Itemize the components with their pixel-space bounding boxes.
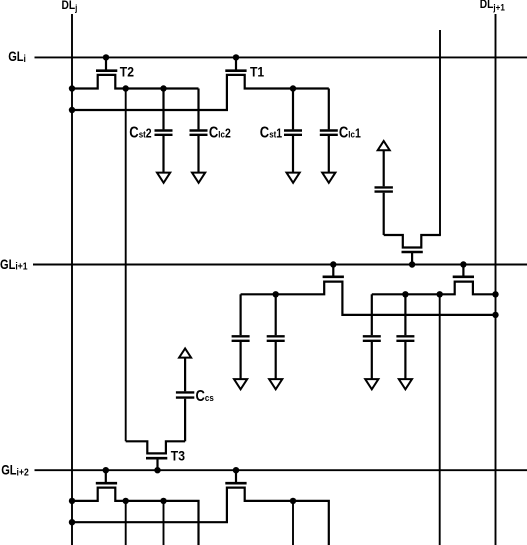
ground arrow under Clc2 [192, 173, 205, 183]
capacitor below-left 1 (unlabeled) [232, 294, 250, 379]
svg-text:T3: T3 [171, 448, 185, 464]
node dot row1c storage branch [123, 498, 129, 504]
node dot B left arm storage line [437, 291, 443, 297]
node dot DLj row2c [69, 519, 75, 525]
ground arrow under Cst2 [157, 173, 170, 183]
svg-text:T2: T2 [120, 64, 134, 80]
node dot B right arm on DLj+1 [492, 291, 498, 297]
capacitor below-left 2 (unlabeled) [267, 294, 285, 379]
ground arrow below-left 1 [234, 379, 247, 389]
gate line GLi [35, 56, 527, 58]
svg-text:DLj+1: DLj+1 [480, 0, 505, 13]
svg-text:DLj: DLj [62, 0, 78, 13]
transistor T3 gate bar [146, 457, 167, 460]
transistor A gate bar [323, 275, 344, 278]
storage line lower segment (vertical at x=439.7) [439, 294, 441, 545]
svg-text:GLi: GLi [8, 49, 26, 65]
capacitor Cst2 [155, 89, 173, 173]
gate line GLi+1 [33, 264, 527, 266]
transistor T4 gate stub [411, 252, 413, 265]
transistor T2c gate stub (below GLi+2 left) [105, 470, 107, 483]
transistor T4 channel (inverted, above GLi+1) [384, 235, 441, 248]
capacitor Clc2 [190, 89, 208, 173]
capacitor Clc1 [320, 89, 338, 173]
node dot B gate on GLi+1 [460, 261, 466, 267]
ground arrow below-left 2 [269, 379, 282, 389]
transistor A gate stub (below GLi+1 left) [332, 265, 334, 277]
transistor T1c gate bar [225, 482, 246, 485]
transistor T4 gate bar [402, 251, 423, 254]
transistor T1 gate bar [225, 69, 246, 72]
transistor T1c gate stub (below GLi+2 right) [235, 470, 237, 483]
ground arrow below-right 1 [365, 379, 378, 389]
ground arrow under Clc1 [322, 173, 335, 183]
node dot T3 gate on GLi+2 [154, 467, 160, 473]
node dot DLj row2 [69, 107, 75, 113]
ground arrow under Cst1 [287, 173, 300, 183]
node dot row2c cap tap [290, 498, 296, 504]
transistor T3 gate stub [156, 458, 158, 470]
node dot B left arm cap tap [402, 291, 408, 297]
node dot T2c gate on GLi+2 [103, 467, 109, 473]
node dot row1c cap tap [160, 498, 166, 504]
transistor T1 gate stub [235, 57, 237, 70]
node dot T4 gate on GLi+1 [409, 261, 415, 267]
capacitor below-right 2 (unlabeled) [396, 294, 414, 379]
transistor T2 gate stub [105, 57, 107, 70]
wire vertical row1c branch a [125, 501, 127, 545]
capacitor below-right 1 (unlabeled) [363, 294, 381, 379]
data line DLj (vertical) [71, 14, 73, 545]
gate line GLi+2 [35, 469, 527, 471]
supply arrow above storage capacitor (up) [378, 141, 390, 150]
node dot row1 storage branch [123, 85, 129, 91]
transistor T2c channel + wire row1c [72, 488, 199, 545]
transistor A channel + arms [241, 282, 496, 315]
transistor T3 channel + arms (inverted, above GLi+2) [126, 441, 185, 453]
transistor B gate stub (below GLi+1 right) [462, 265, 464, 277]
capacitor Ccs [176, 358, 194, 442]
transistor T1 channel + wire row2 (DLj to Clc1 corner) [72, 75, 329, 110]
data line DLj+1 (vertical) [495, 14, 497, 545]
node dot T2 gate on GLi [103, 54, 109, 60]
storage capacitor (unlabeled, above T4) [375, 150, 393, 235]
wire long vertical from row1 down to T3 [125, 89, 127, 442]
storage line upper segment (vertical at x=440) [439, 30, 441, 235]
supply arrow above Ccs (up) [179, 348, 191, 357]
wire vertical row1c branch b [163, 501, 165, 545]
ground arrow below-right 2 [399, 379, 412, 389]
node dot DLj row1 [69, 85, 75, 91]
transistor T1c channel + wire row2c [72, 488, 329, 545]
node dot T1 gate on GLi [233, 54, 239, 60]
svg-text:T1: T1 [250, 64, 264, 80]
transistor B gate bar [453, 275, 474, 278]
node dot T1c gate on GLi+2 [233, 467, 239, 473]
node dot A gate on GLi+1 [330, 261, 336, 267]
wire vertical row2c branch a [292, 501, 294, 545]
transistor T2 gate bar [96, 69, 117, 72]
node dot A right arm on DLj+1 [492, 312, 498, 318]
transistor T2c gate bar [96, 482, 117, 485]
node dot row1 Cst2 tap [160, 85, 166, 91]
transistor T2 channel + wire row1 (DLj to Clc2 corner) [72, 75, 199, 89]
node dot DLj row1c [69, 498, 75, 504]
node dot A left arm cap tap [273, 291, 279, 297]
transistor B channel + arms [372, 282, 496, 295]
node dot row2 Cst1 tap [290, 85, 296, 91]
capacitor Cst1 [284, 89, 302, 173]
